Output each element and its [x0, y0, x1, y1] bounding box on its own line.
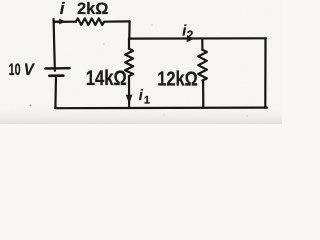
- current arrow i2 (on second wire, pointing right): [187, 35, 195, 42]
- wire: 14k branch bottom with i1 arrow shaft: [128, 76, 130, 108]
- wire: top wire from left corner to 2k resistor: [54, 21, 76, 23]
- resistor R 12k ohm zigzag: [198, 50, 207, 81]
- scan noise specks: [30, 104, 32, 106]
- svg-text:10: 10: [9, 61, 21, 79]
- paper background: [0, 0, 282, 124]
- resistor R 2k ohm zigzag: [76, 18, 104, 25]
- wire: bottom wire: [55, 106, 267, 109]
- wire: left rail top (battery + to top-left corner, small overshoot above corner): [54, 19, 55, 71]
- wire: 12k branch bottom: [202, 81, 204, 108]
- svg-text:14kΩ: 14kΩ: [86, 67, 127, 90]
- wire: 14k branch top: [128, 39, 130, 49]
- wire: top wire from 2k to node corner: [104, 20, 130, 23]
- current arrow i1 (pointing down into bottom wire): [126, 95, 133, 105]
- wire: vertical drop at node: [128, 21, 131, 38]
- battery V1 short plate: [49, 74, 63, 77]
- wire: right rail: [264, 38, 266, 107]
- wire: second horizontal wire to right rail: [129, 37, 266, 39]
- svg-text:2kΩ: 2kΩ: [77, 0, 109, 18]
- wire: 12k branch top: [201, 39, 203, 50]
- wire: battery bottom to bottom-left corner: [54, 76, 57, 108]
- svg-text:2: 2: [187, 30, 193, 42]
- current arrow i (on top wire, pointing right): [59, 19, 66, 25]
- battery V1 long plate: [45, 67, 69, 70]
- resistor R 14k ohm zigzag: [125, 49, 133, 76]
- svg-text:V: V: [24, 60, 35, 79]
- svg-text:12kΩ: 12kΩ: [157, 68, 198, 91]
- svg-text:1: 1: [144, 94, 150, 106]
